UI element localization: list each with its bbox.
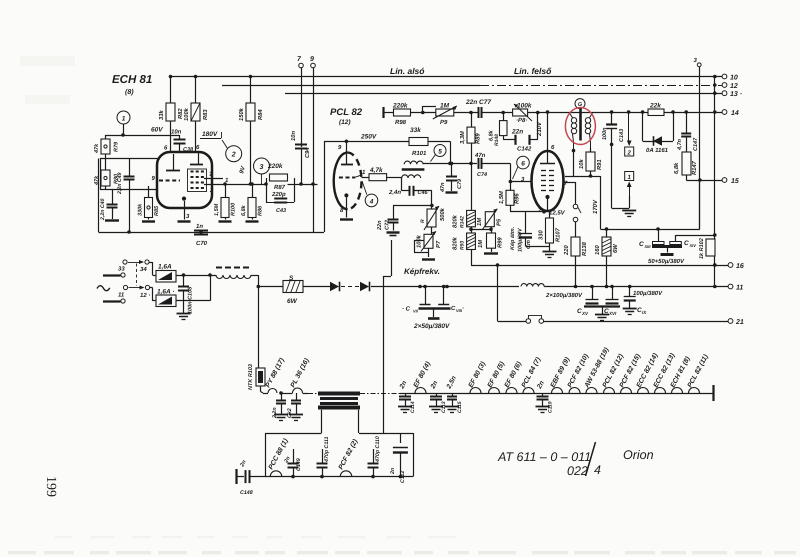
capacitor CXIII	[639, 227, 664, 249]
wire switch to fuse2	[150, 288, 157, 301]
svg-text:100n C108: 100n C108	[188, 286, 194, 314]
resistor R147 6.8k	[673, 152, 698, 180]
svg-text:R79: R79	[114, 141, 120, 152]
tube label PCL 82 (12)	[330, 107, 363, 126]
svg-text:XIV: XIV	[689, 243, 697, 248]
capacitor C112 2n	[390, 433, 408, 483]
resistor R86 6.8k	[241, 182, 264, 221]
svg-text:6,8k: 6,8k	[673, 162, 680, 174]
resistor R148 6.8k	[489, 113, 516, 147]
tube U2 PCL82 triode envelope	[334, 153, 362, 210]
wire bus line A	[170, 76, 722, 78]
capacitor C38 10n	[171, 129, 194, 154]
svg-text:R98: R98	[395, 119, 407, 126]
svg-text:Lin. felső: Lin. felső	[514, 66, 552, 76]
tube heater AW53-88 (19)	[583, 346, 611, 393]
tube U1 ECH81 envelope	[157, 152, 212, 208]
svg-text:C115: C115	[457, 401, 463, 413]
svg-text:4,7n: 4,7n	[677, 138, 683, 151]
svg-text:Ck2: Ck2	[287, 408, 293, 418]
potentiometer 500k	[420, 205, 446, 230]
svg-text:C43: C43	[276, 208, 286, 214]
capacitor CXV	[577, 287, 599, 317]
resistor R83 100k	[183, 75, 209, 152]
capacitor C43 220p	[266, 191, 294, 214]
svg-text:6W: 6W	[287, 298, 298, 305]
svg-text:C72: C72	[385, 220, 391, 230]
tube heater PCL82 (12)	[602, 352, 626, 393]
svg-text:100n: 100n	[602, 127, 608, 140]
svg-text:R93: R93	[460, 241, 466, 250]
label mains	[97, 286, 110, 291]
svg-text:C74: C74	[477, 172, 487, 178]
wire to terminal 14	[0, 0, 1, 1]
resistor R99 1M	[471, 227, 504, 254]
svg-text:6: 6	[164, 145, 168, 152]
capacitor C79 47n	[440, 163, 463, 193]
resistor R82 33k	[158, 75, 184, 152]
svg-text:R107: R107	[555, 227, 562, 242]
tube heater PCL82 (11)	[687, 353, 711, 393]
tube heater EBF89 (9)	[550, 356, 572, 393]
filter coil L2	[521, 284, 544, 287]
svg-text:1n: 1n	[196, 223, 203, 230]
resistor R102 1k	[699, 238, 715, 259]
tube heater ECH81 (8)	[670, 355, 692, 393]
svg-text:1: 1	[628, 174, 632, 181]
svg-text:6,8k: 6,8k	[241, 204, 247, 216]
svg-text:C114: C114	[410, 401, 416, 413]
svg-text:·: ·	[462, 306, 464, 312]
switch gang link	[136, 264, 138, 287]
svg-text:220: 220	[563, 245, 570, 256]
svg-text:33k: 33k	[410, 127, 421, 134]
svg-text:Kép átm.: Kép átm.	[509, 226, 516, 250]
wire 210V line	[546, 110, 722, 114]
tube heater PCF82 (15)	[619, 352, 643, 393]
diode OA1161	[643, 136, 673, 154]
svg-text:C112: C112	[400, 471, 406, 483]
resistor R84 150k	[238, 75, 264, 184]
svg-text:500k: 500k	[439, 207, 446, 221]
heater switch	[563, 182, 581, 237]
node 6 callout	[513, 156, 530, 179]
alignment point G	[575, 99, 585, 109]
wire diode dash	[341, 286, 360, 288]
capacitor C72 22n	[377, 205, 400, 235]
capacitor C40 2.2n	[100, 190, 119, 222]
capacitor C46 2.4n	[388, 186, 434, 207]
svg-text:100µ/30V: 100µ/30V	[518, 227, 524, 252]
transformer T2 left coil	[569, 112, 577, 151]
resistor R96 1.5M	[499, 182, 544, 212]
svg-text:R99: R99	[497, 237, 504, 248]
svg-text:R91: R91	[596, 159, 603, 170]
svg-text:3: 3	[694, 57, 698, 64]
svg-text:4,7k: 4,7k	[369, 167, 383, 174]
svg-text:R: R	[420, 219, 426, 223]
svg-text:PCL 82: PCL 82	[330, 107, 363, 118]
svg-text:ECH 81: ECH 81	[112, 74, 152, 86]
resistor R91 10k	[572, 148, 603, 178]
tube heater PCF82 (10)	[567, 352, 591, 393]
resistor S 6W	[257, 275, 304, 305]
svg-text:C119: C119	[548, 401, 554, 413]
label 180V	[200, 131, 222, 139]
wire switch to fuse1	[149, 262, 156, 276]
wire chain2	[249, 475, 413, 479]
pin 7 top	[297, 56, 303, 147]
svg-text:1,6A: 1,6A	[158, 264, 172, 271]
wire fuse1 out	[176, 273, 216, 277]
svg-text:15: 15	[731, 178, 739, 185]
wire to terminal 16	[471, 263, 728, 267]
title 022	[567, 463, 601, 478]
resistor R87 220k	[266, 163, 318, 202]
svg-text:2×100µ/380V: 2×100µ/380V	[545, 292, 583, 299]
svg-text:2: 2	[627, 150, 632, 157]
resistor 160 6W	[594, 227, 619, 288]
potentiometer P8 100k	[513, 103, 548, 125]
svg-text:1: 1	[122, 116, 126, 123]
svg-text:220k: 220k	[267, 163, 283, 170]
capacitor C147 4.7n	[677, 112, 699, 152]
svg-text:820k: 820k	[452, 214, 459, 228]
svg-text:170V: 170V	[592, 199, 599, 214]
resistor R101 33k	[409, 127, 451, 163]
svg-text:1k R102: 1k R102	[699, 238, 705, 259]
svg-text:7: 7	[297, 56, 302, 63]
svg-text:R86: R86	[258, 205, 264, 216]
capacitor CXIV	[670, 235, 715, 248]
svg-text:10n: 10n	[290, 131, 297, 141]
resistor R138 220	[563, 237, 588, 288]
terminal 14	[722, 110, 739, 117]
tube heater PCF82 (2)	[338, 438, 360, 477]
ground detector	[622, 211, 636, 217]
terminal 21	[728, 319, 744, 326]
svg-text:2,2n C40: 2,2n C40	[100, 199, 106, 221]
svg-text:22n C77: 22n C77	[465, 99, 491, 106]
capacitor C119 2n	[536, 380, 554, 413]
svg-text:1M: 1M	[478, 240, 484, 248]
tube heater EF80 (5)	[487, 360, 507, 393]
capacitor Ck2a 2.2n	[272, 393, 288, 421]
wire heater dashdot	[308, 393, 319, 395]
svg-text:4: 4	[594, 463, 601, 477]
svg-text:12 ·: 12 ·	[140, 292, 150, 299]
svg-text:C: C	[684, 240, 689, 247]
svg-text:PCF 82 (2): PCF 82 (2)	[338, 438, 360, 471]
svg-text:Cm ·: Cm ·	[526, 237, 532, 249]
capacitor C113 2n	[429, 380, 447, 413]
test box 1	[625, 172, 634, 197]
mains stub lower	[103, 300, 121, 302]
svg-text:10n: 10n	[171, 129, 182, 136]
wire rail riser	[324, 141, 326, 232]
label Kepfrekv	[404, 267, 440, 276]
capacitor C148 2n	[239, 459, 253, 496]
svg-text:Képfrekv.: Képfrekv.	[404, 267, 440, 276]
svg-text:12: 12	[730, 83, 738, 90]
switch 11-12	[118, 285, 150, 303]
svg-text:210V: 210V	[536, 121, 543, 137]
wire cap bar	[652, 246, 682, 254]
svg-text:6: 6	[196, 144, 200, 151]
label 210V	[536, 121, 543, 137]
fuse F2 1.6A	[156, 289, 176, 307]
svg-text:470p C110: 470p C110	[375, 436, 381, 463]
svg-text:2: 2	[537, 207, 542, 214]
wire ground rail	[99, 230, 325, 234]
tube U2 electrodes	[339, 141, 362, 219]
svg-text:100k: 100k	[183, 107, 190, 121]
wire to terminal 15	[686, 178, 722, 182]
capacitor C114 2n	[398, 380, 416, 413]
ground C148	[236, 469, 244, 484]
svg-text:6: 6	[551, 144, 555, 151]
svg-text:C143: C143	[619, 129, 625, 142]
svg-text:R142: R142	[460, 216, 466, 228]
svg-text:C148: C148	[240, 490, 253, 496]
resistor R100 1.5M	[214, 184, 237, 222]
wire heater chain	[400, 393, 713, 395]
terminal 10	[722, 74, 738, 81]
svg-text:2,4n: 2,4n	[388, 189, 401, 196]
fuse F1 1.6A	[156, 264, 176, 283]
capacitor C115 2.5n	[445, 375, 463, 413]
diode D1	[330, 282, 340, 292]
tube U1 pin labels	[152, 144, 230, 220]
svg-text:250V: 250V	[360, 134, 377, 141]
wire right vertical rail	[713, 75, 717, 289]
svg-text:100k: 100k	[416, 234, 423, 248]
capacitor Ck2b	[287, 393, 303, 421]
svg-text:C79: C79	[457, 178, 463, 189]
tube U3 PCL82 pentode envelope	[532, 151, 564, 211]
svg-text:C149: C149	[296, 458, 302, 471]
svg-text:R87: R87	[274, 184, 286, 191]
label 60V	[151, 127, 163, 134]
svg-text:5: 5	[438, 149, 442, 156]
wire grid2 row	[204, 182, 268, 186]
label Lin. also	[390, 66, 424, 76]
svg-text:0A 1161: 0A 1161	[646, 147, 669, 154]
svg-text:21: 21	[735, 319, 744, 326]
capacitor CVIII	[419, 285, 465, 319]
tube label ECH 81 (8)	[112, 74, 152, 96]
svg-text:14: 14	[731, 110, 739, 117]
svg-text:3: 3	[260, 164, 264, 171]
svg-text:7: 7	[564, 180, 568, 187]
potentiometer P5 1M	[477, 209, 503, 230]
resistor R80 47k	[94, 159, 120, 190]
svg-text:199: 199	[43, 476, 58, 497]
tube U3 electrodes	[540, 151, 555, 211]
capacitor C111 470p	[317, 437, 331, 477]
label 2x100u/380V	[545, 292, 583, 299]
svg-text:NTK R103: NTK R103	[248, 364, 254, 390]
svg-text:IX: IX	[642, 310, 647, 315]
wire coil out	[251, 275, 259, 368]
wire bus line B	[222, 85, 722, 87]
node 2 callout	[222, 140, 242, 162]
title AT number	[497, 450, 591, 464]
svg-text:34: 34	[140, 266, 147, 273]
svg-text:2,5n: 2,5n	[445, 375, 458, 391]
svg-text:6W: 6W	[612, 244, 619, 253]
svg-text:C70: C70	[196, 240, 208, 247]
wire cap bar 2	[584, 307, 620, 321]
svg-text:R82: R82	[177, 108, 184, 119]
node 5 callout	[431, 145, 447, 162]
svg-text:33: 33	[118, 266, 125, 273]
terminal 16	[728, 263, 744, 270]
mains stub upper	[103, 274, 121, 276]
tube heater PCC88 (1)	[268, 437, 290, 477]
svg-text:9: 9	[152, 175, 156, 182]
wire fuse2 out	[176, 275, 211, 301]
capacitor C94 10n	[290, 131, 311, 184]
svg-text:33k: 33k	[158, 110, 165, 120]
filter coil L1	[216, 268, 251, 279]
wire grid top row	[100, 135, 180, 190]
wire 250V line	[324, 134, 409, 144]
svg-text:220p: 220p	[271, 191, 286, 198]
svg-text:180V: 180V	[202, 131, 218, 138]
svg-text:2: 2	[209, 187, 214, 194]
svg-text:50+50µ/380V: 50+50µ/380V	[648, 258, 685, 265]
wire kep box	[383, 240, 392, 433]
wire pin7 to R91	[565, 151, 591, 177]
terminal 15	[722, 178, 739, 185]
svg-text:2n: 2n	[390, 467, 396, 475]
svg-text:2n: 2n	[429, 380, 439, 391]
svg-text:C38: C38	[183, 147, 194, 153]
pin 9 top	[310, 56, 315, 233]
title Orion	[623, 448, 654, 462]
svg-text:3: 3	[186, 213, 190, 220]
terminal 11	[728, 284, 743, 291]
resistor R79 47k	[94, 135, 120, 159]
svg-text:C94: C94	[304, 147, 311, 158]
svg-text:R85: R85	[154, 205, 160, 216]
capacitor CXVI	[604, 287, 619, 317]
red highlight ellipse	[565, 108, 595, 145]
wire heater dashdot 2	[360, 393, 400, 395]
svg-text:2n: 2n	[398, 380, 408, 391]
svg-text:PL 36 (16): PL 36 (16)	[290, 357, 312, 389]
transformer T2 right coil	[585, 112, 593, 152]
svg-text:P5: P5	[497, 218, 503, 226]
svg-text:· C: · C	[402, 306, 411, 313]
svg-text:100µ/380V: 100µ/380V	[633, 290, 663, 297]
svg-text:C142: C142	[517, 146, 532, 153]
wire left column	[98, 159, 100, 233]
svg-text:6: 6	[521, 161, 525, 168]
tube heater PCL84 (7)	[521, 356, 543, 393]
wire box ground	[612, 144, 630, 208]
scan smudge row	[55, 536, 456, 538]
capacitor CIX	[623, 287, 648, 316]
node 3 callout	[254, 158, 270, 184]
svg-text:22n: 22n	[511, 129, 523, 136]
scan edge dashes	[8, 551, 796, 554]
label 50+50u/380V	[648, 258, 685, 265]
node 1 callout	[117, 111, 130, 137]
wire bus line C	[285, 93, 722, 95]
resistor R85 330k	[138, 186, 161, 222]
svg-text:60V: 60V	[151, 127, 163, 134]
svg-text:EF 80 (4): EF 80 (4)	[413, 360, 433, 389]
label 2x50u/380V	[413, 323, 450, 330]
wire rectified line	[371, 285, 519, 289]
wire R80 row	[100, 189, 158, 191]
svg-text:22n: 22n	[377, 220, 383, 231]
svg-text:XVI: XVI	[608, 311, 617, 316]
svg-text:C: C	[639, 241, 644, 248]
capacitor C110 470p	[368, 436, 382, 476]
svg-text:Lin. alsó: Lin. alsó	[390, 66, 424, 76]
node 4 callout	[362, 181, 378, 207]
svg-text:9V: 9V	[238, 165, 247, 175]
svg-text:XV: XV	[581, 311, 589, 316]
svg-text:2,2n C49: 2,2n C49	[117, 173, 123, 195]
svg-text:470p C111: 470p C111	[324, 437, 330, 463]
svg-text:1: 1	[362, 169, 366, 176]
svg-text:47k: 47k	[94, 143, 100, 154]
svg-text:R84: R84	[257, 109, 264, 120]
resistor R98 220k	[384, 103, 437, 127]
svg-text:EF 80 (3): EF 80 (3)	[468, 360, 488, 389]
transformer T2 core	[579, 109, 582, 141]
tube U2 pin labels	[338, 144, 366, 214]
thermistor R103 NTK	[248, 364, 265, 393]
svg-text:PCC 88 (1): PCC 88 (1)	[268, 437, 290, 471]
svg-text:47n: 47n	[440, 182, 446, 193]
svg-text:PY 88 (17): PY 88 (17)	[265, 356, 287, 389]
svg-text:11: 11	[736, 285, 743, 292]
svg-text:R96: R96	[514, 193, 521, 204]
box tuner outline	[265, 433, 414, 477]
svg-text:022: 022	[567, 464, 588, 478]
capacitor C108 100n	[177, 275, 194, 320]
heater chain end	[712, 385, 714, 401]
flyback transformer	[318, 394, 360, 434]
tube heater EF80 (3)	[468, 360, 488, 393]
pin 3 top	[694, 57, 702, 229]
svg-text:9: 9	[338, 144, 342, 151]
svg-text:330k: 330k	[138, 203, 144, 216]
terminal 13	[722, 91, 742, 98]
capacitor C142 22n	[511, 113, 538, 153]
svg-text:3,3M: 3,3M	[459, 131, 466, 144]
svg-text:10k: 10k	[578, 159, 585, 169]
capacitor C77 22n	[465, 99, 513, 118]
svg-text:VII: VII	[413, 309, 419, 314]
resistor R89 3.3M	[459, 113, 482, 164]
svg-text:11: 11	[118, 292, 125, 299]
resistor 22k	[643, 103, 674, 142]
svg-text:R100: R100	[231, 203, 237, 216]
svg-text:150k: 150k	[238, 107, 245, 121]
label 100u/380V	[633, 290, 663, 297]
svg-text:4: 4	[369, 198, 374, 205]
switch degauss	[526, 315, 544, 323]
svg-text:R89: R89	[475, 133, 482, 144]
svg-text:10: 10	[730, 75, 738, 82]
diode D2	[360, 282, 370, 292]
